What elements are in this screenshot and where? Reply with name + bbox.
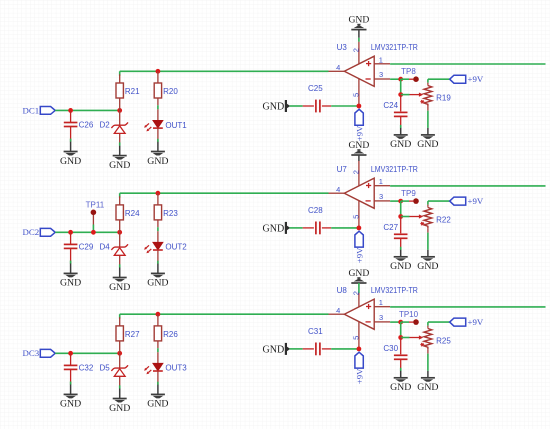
op-amp U8 <box>329 286 419 349</box>
wire: LED cathode to ground <box>157 128 159 142</box>
svg-text:C26: C26 <box>79 121 94 130</box>
junction at pin 5 of U8 <box>357 347 362 352</box>
svg-text:GND: GND <box>60 399 81 410</box>
svg-text:GND: GND <box>390 261 411 272</box>
capacitor C30 <box>383 344 407 359</box>
svg-text:C32: C32 <box>79 363 94 372</box>
svg-text:GND: GND <box>109 403 130 414</box>
wire: U3 pin 1 net to edge <box>390 63 545 65</box>
wire: R25 bottom to ground <box>427 350 429 371</box>
svg-text:R22: R22 <box>436 215 451 224</box>
svg-text:5: 5 <box>352 93 361 97</box>
svg-text:3: 3 <box>379 192 383 201</box>
junction at C26 <box>68 108 73 113</box>
wire: U7 pin 1 net to edge <box>390 185 545 187</box>
capacitor C29 <box>64 242 94 251</box>
ground above U7 <box>349 140 370 155</box>
ground above U3 <box>349 15 370 30</box>
svg-text:OUT1: OUT1 <box>165 121 187 130</box>
svg-text:R25: R25 <box>436 336 451 345</box>
svg-text:1: 1 <box>379 55 383 64</box>
svg-text:C29: C29 <box>79 242 94 251</box>
ground under C30 <box>390 371 411 393</box>
power port +9V below U8 <box>354 352 364 384</box>
wire: pin of D2 <box>119 110 121 145</box>
junction pin3 net <box>398 77 403 82</box>
ground under D2 <box>109 146 130 171</box>
net label GND at C28 <box>263 222 291 234</box>
test point TP10 <box>399 310 419 325</box>
svg-text:DC1: DC1 <box>22 105 39 115</box>
svg-text:GND: GND <box>390 139 411 150</box>
wire: pin of D4 <box>119 232 121 267</box>
svg-text:LMV321TP-TR: LMV321TP-TR <box>371 165 418 174</box>
wire: DC3 to R27 bottom <box>55 352 120 354</box>
svg-text:GND: GND <box>390 382 411 393</box>
capacitor C27 <box>383 223 407 238</box>
wire: pin of R20 <box>157 71 159 120</box>
ground under C29 <box>60 264 81 289</box>
net label GND at C25 <box>263 100 291 112</box>
wire: +9V to R19 <box>428 79 450 85</box>
svg-text:R26: R26 <box>163 330 178 339</box>
wire: +9V to R25 <box>428 322 450 328</box>
wire: C31 to pin 5 <box>322 348 359 350</box>
svg-text:OUT3: OUT3 <box>165 364 187 373</box>
wire: DC1 to R21 bottom <box>55 109 120 111</box>
ground under D5 <box>109 389 130 414</box>
wire: C28 to pin 5 <box>322 227 359 229</box>
svg-text:C31: C31 <box>308 327 323 336</box>
resistor R23 <box>154 205 178 220</box>
svg-text:TP10: TP10 <box>399 310 419 319</box>
capacitor C28 <box>308 206 323 234</box>
junction at C32 <box>68 351 73 356</box>
svg-text:GND: GND <box>349 140 370 151</box>
wiper of R19 <box>401 93 424 97</box>
junction pin3 net <box>398 320 403 325</box>
port DC1 <box>22 105 55 115</box>
wire: +9V to R22 <box>428 201 450 207</box>
potentiometer R25 <box>420 328 451 350</box>
svg-text:R19: R19 <box>436 93 451 102</box>
svg-text:R27: R27 <box>125 330 140 339</box>
wiper of R22 <box>401 214 424 218</box>
svg-text:4: 4 <box>336 63 340 72</box>
svg-text:GND: GND <box>60 156 81 167</box>
svg-text:+9V: +9V <box>468 317 484 327</box>
resistor R26 <box>154 326 178 341</box>
svg-text:C28: C28 <box>308 206 323 215</box>
resistor R24 <box>116 205 140 220</box>
op-amp U3 <box>329 43 419 106</box>
ground under C32 <box>60 385 81 410</box>
wire: pin 2 of U8 to ground <box>358 283 360 307</box>
ground under C24 <box>390 128 411 150</box>
resistor R27 <box>116 326 140 341</box>
svg-text:D2: D2 <box>100 121 111 130</box>
power port +9V right <box>450 317 484 327</box>
power port +9V below U7 <box>354 231 364 263</box>
power port +9V right <box>450 74 484 84</box>
wire: C25 to pin 5 <box>322 105 359 107</box>
ground under OUT1 <box>147 142 168 167</box>
test point TP8 <box>401 67 419 82</box>
svg-text:4: 4 <box>336 185 340 194</box>
svg-text:3: 3 <box>379 313 383 322</box>
wire: pin 2 of U3 to ground <box>358 30 360 64</box>
junction at R20 top <box>156 69 161 74</box>
resistor R21 <box>116 83 140 98</box>
svg-text:D4: D4 <box>100 243 111 252</box>
svg-text:GND: GND <box>417 139 438 150</box>
svg-text:GND: GND <box>147 156 168 167</box>
svg-text:+9V: +9V <box>354 247 364 263</box>
svg-text:R24: R24 <box>125 209 140 218</box>
svg-text:TP9: TP9 <box>401 189 416 198</box>
wire: GND flag to C28 <box>290 227 314 229</box>
wire: LED cathode to ground <box>157 371 159 385</box>
wire: pin 3 of U8 to junction <box>390 321 401 323</box>
junction TP11 on DC2 wire <box>91 230 96 235</box>
LED OUT2 <box>144 242 187 253</box>
svg-text:C25: C25 <box>308 84 323 93</box>
junction at R21/D2 <box>117 108 122 113</box>
svg-text:GND: GND <box>147 399 168 410</box>
ground under R19 <box>417 128 438 150</box>
ground under OUT3 <box>147 385 168 410</box>
wire: op-amp U7 output to R24/R23 <box>120 193 329 198</box>
wire: LED cathode to ground <box>157 250 159 264</box>
zener diode D5 <box>111 365 128 376</box>
wire: pin 3 of U3 to junction <box>390 78 401 80</box>
wire: DC2 to R24 bottom <box>55 231 120 233</box>
wire: pin of R21 <box>119 74 121 110</box>
ground under D4 <box>109 268 130 293</box>
ground above U8 <box>349 268 370 283</box>
svg-text:1: 1 <box>379 177 383 186</box>
wire: pin of C26 <box>70 110 72 141</box>
wire: GND flag to C31 <box>290 348 314 350</box>
capacitor C26 <box>64 121 94 130</box>
test point TP9 <box>401 189 419 204</box>
junction at pin 5 of U7 <box>357 226 362 231</box>
svg-text:+9V: +9V <box>468 74 484 84</box>
net label GND at C31 <box>263 343 291 355</box>
wire: pin of R26 <box>157 314 159 363</box>
svg-text:3: 3 <box>379 70 383 79</box>
junction at C29 <box>68 230 73 235</box>
resistor R20 <box>154 83 178 98</box>
junction at pin 5 of U3 <box>357 104 362 109</box>
wire: junction down <box>400 201 402 216</box>
ground under C26 <box>60 142 81 167</box>
svg-text:1: 1 <box>379 298 383 307</box>
svg-text:GND: GND <box>417 261 438 272</box>
svg-text:5: 5 <box>352 336 361 340</box>
ground under OUT2 <box>147 264 168 289</box>
wire: pin 2 of U7 to ground <box>358 155 360 186</box>
svg-text:GND: GND <box>263 344 285 355</box>
port DC2 <box>22 227 55 237</box>
wire: pin of R27 <box>119 317 121 353</box>
svg-text:TP8: TP8 <box>401 67 416 76</box>
svg-text:DC3: DC3 <box>22 348 39 358</box>
svg-text:GND: GND <box>349 15 370 26</box>
svg-text:R21: R21 <box>125 87 140 96</box>
junction 2 pin3 net <box>398 92 403 97</box>
svg-text:+9V: +9V <box>354 368 364 384</box>
svg-text:R23: R23 <box>163 209 178 218</box>
svg-text:LMV321TP-TR: LMV321TP-TR <box>371 43 418 52</box>
svg-text:GND: GND <box>60 278 81 289</box>
wire: pin of C27 <box>400 217 402 251</box>
svg-text:D5: D5 <box>100 364 111 373</box>
svg-text:GND: GND <box>109 282 130 293</box>
capacitor C32 <box>64 363 94 372</box>
LED OUT1 <box>144 121 187 132</box>
svg-text:2: 2 <box>352 170 361 174</box>
wire: pin of C29 <box>70 232 72 263</box>
svg-text:U8: U8 <box>337 286 348 295</box>
wire: pin of C32 <box>70 353 72 384</box>
capacitor C25 <box>308 84 323 112</box>
junction 2 pin3 net <box>398 335 403 340</box>
wire: op-amp U3 output to R21/R20 <box>120 71 329 76</box>
junction 2 pin3 net <box>398 214 403 219</box>
svg-text:C24: C24 <box>383 101 398 110</box>
power port +9V right <box>450 196 484 206</box>
test point TP11 <box>86 200 105 232</box>
svg-text:TP11: TP11 <box>86 200 105 209</box>
ground under R22 <box>417 250 438 272</box>
wire: pin of C30 <box>400 338 402 372</box>
power port +9V below U3 <box>354 109 364 141</box>
svg-text:R20: R20 <box>163 87 178 96</box>
svg-text:LMV321TP-TR: LMV321TP-TR <box>371 286 418 295</box>
zener diode D2 <box>111 122 128 133</box>
svg-text:U3: U3 <box>337 43 348 52</box>
potentiometer R19 <box>420 85 451 107</box>
svg-text:U7: U7 <box>337 165 348 174</box>
svg-text:GND: GND <box>147 278 168 289</box>
svg-text:GND: GND <box>263 101 285 112</box>
svg-text:GND: GND <box>417 382 438 393</box>
junction pin3 net <box>398 199 403 204</box>
svg-text:GND: GND <box>263 223 285 234</box>
svg-text:2: 2 <box>352 48 361 52</box>
svg-text:2: 2 <box>352 291 361 295</box>
wire: GND flag to C25 <box>290 105 314 107</box>
svg-text:C27: C27 <box>383 223 398 232</box>
svg-text:4: 4 <box>336 306 340 315</box>
wire: pin of C24 <box>400 95 402 129</box>
zener diode D4 <box>111 244 128 255</box>
wire: U8 pin 1 net to edge <box>390 306 545 308</box>
svg-text:OUT2: OUT2 <box>165 243 187 252</box>
op-amp U7 <box>329 165 419 228</box>
junction at R23 top <box>156 191 161 196</box>
ground under R25 <box>417 371 438 393</box>
junction at R26 top <box>156 312 161 317</box>
wire: R22 bottom to ground <box>427 229 429 250</box>
wire: pin 3 of U7 to junction <box>390 200 401 202</box>
wire: pin of D5 <box>119 353 121 388</box>
potentiometer R22 <box>420 207 451 229</box>
svg-text:C30: C30 <box>383 344 398 353</box>
wire: R19 bottom to ground <box>427 107 429 128</box>
capacitor C31 <box>308 327 323 355</box>
wire: pin of R23 <box>157 193 159 242</box>
svg-text:GND: GND <box>349 268 370 279</box>
junction at R27/D5 <box>117 351 122 356</box>
svg-text:GND: GND <box>109 160 130 171</box>
svg-text:+9V: +9V <box>354 125 364 141</box>
LED OUT3 <box>144 363 187 374</box>
port DC3 <box>22 348 55 358</box>
wire: op-amp U8 output to R27/R26 <box>120 314 329 319</box>
wire: junction down <box>400 79 402 94</box>
svg-text:DC2: DC2 <box>22 227 39 237</box>
svg-text:5: 5 <box>352 215 361 219</box>
junction at R24/D4 <box>117 230 122 235</box>
wiper of R25 <box>401 335 424 339</box>
ground under C27 <box>390 250 411 272</box>
svg-text:+9V: +9V <box>468 196 484 206</box>
capacitor C24 <box>383 101 407 116</box>
wire: pin of R24 <box>119 196 121 232</box>
wire: junction down <box>400 322 402 337</box>
